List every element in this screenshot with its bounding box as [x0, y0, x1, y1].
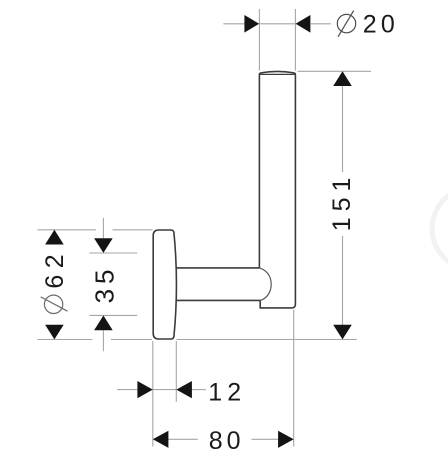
dimension line 151 upper segment — [342, 85, 344, 172]
extension line: tube left edge (for dia 20) — [258, 9, 260, 71]
svg-text:62: 62 — [41, 248, 69, 289]
svg-text:35: 35 — [89, 264, 119, 303]
arrow dia62 bottom (pointing down) — [45, 325, 64, 340]
dimension line 80 right segment — [252, 438, 279, 440]
extension line: plate top left part a — [38, 229, 97, 231]
extension line: tube right for 80 — [293, 310, 295, 447]
arrow 80 right (pointing right) — [278, 431, 294, 448]
extension line: plate right for 12 — [175, 341, 177, 402]
dimension line 35 above arrow — [102, 218, 104, 238]
arrow dia20 left (pointing right) — [244, 15, 259, 33]
dimension line dia20 between extensions — [259, 23, 295, 25]
arrow 12 right (pointing left) — [176, 381, 192, 398]
arrow 35 top (pointing down) — [94, 238, 113, 253]
arm top edge — [176, 267, 260, 269]
arrow 151 top (pointing up) — [333, 71, 352, 86]
tube (vertical post) — [259, 71, 295, 308]
dimension line 12 between extensions — [153, 389, 177, 391]
extension line: 35 top — [89, 252, 137, 254]
svg-text:151: 151 — [328, 172, 356, 232]
arrow dia20 right (pointing left) — [296, 15, 311, 33]
wall plate (rosette side view) — [153, 230, 176, 339]
tube cap lower edge line — [260, 73, 295, 75]
svg-text:80: 80 — [209, 427, 245, 455]
extension line: tube right edge (for dia 20) — [294, 9, 296, 71]
dimension line 35 below arrow — [102, 330, 104, 351]
arrow dia62 top (pointing up) — [45, 230, 64, 245]
extension line: plate top left part b — [113, 229, 153, 231]
arrow 35 bottom (pointing up) — [94, 316, 113, 331]
dimension line 12 left tail — [117, 389, 137, 391]
arm end cap curve at tube — [259, 268, 271, 301]
extension line: tube top for 151 — [298, 70, 372, 72]
dimension line 12 right tail — [192, 389, 206, 391]
arrow 12 left (pointing right) — [137, 381, 152, 398]
arrow 80 left (pointing left) — [153, 431, 169, 448]
extension line: plate bottom left part a — [37, 339, 92, 341]
extension line: plate left for 12/80 — [152, 341, 154, 447]
diameter symbol for 62 — [41, 295, 68, 313]
dimension line dia20 left tail — [223, 23, 244, 25]
dimension line dia20 right tail — [311, 23, 331, 25]
arm bottom edge — [176, 299, 261, 301]
dimension line 80 left segment — [168, 438, 197, 440]
arrow 151 bottom (pointing down) — [333, 325, 352, 340]
faint watermark circle bottom right — [432, 188, 448, 270]
extension line: plate bottom right part — [177, 339, 357, 341]
diameter symbol for 20 — [337, 11, 355, 37]
svg-text:20: 20 — [363, 11, 399, 39]
extension line: plate bottom left part b — [111, 339, 152, 341]
extension line: 35 bottom — [89, 314, 137, 316]
dimension line 151 lower segment — [342, 236, 344, 325]
svg-text:12: 12 — [208, 379, 246, 407]
